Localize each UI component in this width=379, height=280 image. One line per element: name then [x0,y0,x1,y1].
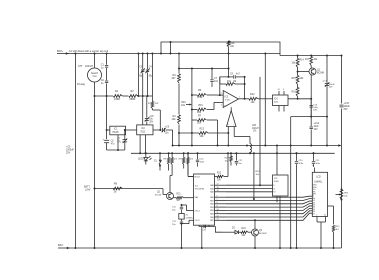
svg-text:4k7: 4k7 [172,77,177,80]
svg-text:RB4: RB4 [210,210,214,212]
resistor R26 on bus [225,152,233,165]
wire right rail [341,55,343,249]
capacitor C16 emitter [310,99,319,117]
svg-text:L1B: L1B [252,125,256,127]
svg-text:16: 16 [324,215,326,217]
svg-text:25V: 25V [66,153,71,155]
wire 5V rail [173,144,342,147]
capacitor C9 feedback [219,74,245,97]
svg-text:Search: Search [91,73,99,75]
svg-text:RB3: RB3 [210,207,214,209]
resistor R13 bottom line [179,128,228,139]
wire tank vertical b [151,53,153,97]
capacitor C7 47u [117,129,127,150]
node BAT- terminal [58,243,70,250]
svg-text:100n: 100n [316,163,322,165]
resistor R27 tank feed [148,96,161,131]
svg-text:BC548: BC548 [317,72,325,74]
svg-text:OSC2: OSC2 [195,220,200,222]
svg-text:BATT: BATT [84,186,90,189]
svg-text:+C15: +C15 [344,103,350,105]
diode D2 [222,228,239,235]
svg-text:RB5: RB5 [210,214,214,216]
IC1 regulator [110,126,126,135]
svg-text:3: 3 [221,104,222,106]
resistor R21 [174,194,194,203]
wire data bus RB0-RB7 [226,196,312,220]
svg-text:100mH: 100mH [85,65,93,68]
svg-text:1%: 1% [253,131,256,133]
capacitor C1 [101,53,109,81]
wire regulator feed [107,129,110,131]
resistor R19 [179,152,185,168]
capacitor LC1 [322,55,336,117]
svg-text:CL: CL [273,188,275,190]
svg-text:6: 6 [217,196,218,198]
svg-text:RB1: RB1 [210,200,214,202]
svg-text:OSC1: OSC1 [195,210,200,212]
resistor R28 from H0 [227,41,235,78]
svg-text:TL072: TL072 [225,99,232,101]
wire RA bus to IC6 [226,185,273,192]
svg-text:BAT-: BAT- [58,243,64,247]
svg-text:9: 9 [217,206,218,208]
wire aux vertical [253,152,255,200]
node BATT LOW line [84,186,163,192]
resistor R3 [172,53,181,96]
svg-text:11: 11 [217,212,219,214]
svg-text:12: 12 [217,215,219,217]
resistor R12 output [239,93,273,104]
resistor R5 upper input [192,89,223,99]
text C5 annotation [66,147,74,155]
wire PIC ground pins [199,225,222,249]
svg-text:13: 13 [217,219,219,221]
svg-text:100uF: 100uF [344,106,351,108]
capacitor C7 on tap [210,69,218,88]
capacitor C20 [295,152,304,249]
wire PIC left pin MCLR [188,176,194,178]
svg-text:4: 4 [283,89,284,91]
svg-text:ATT: ATT [78,65,83,68]
IC U6 shift register [273,145,289,250]
wire regulator out to 5V rail [172,130,174,147]
svg-text:18: 18 [217,187,219,189]
svg-text:BC548C: BC548C [259,233,267,235]
svg-text:RA0: RA0 [210,184,214,187]
capacitor C5 reservoir [103,96,115,150]
resistor R1 [95,90,123,101]
svg-text:BC558: BC558 [155,194,162,196]
svg-text:RB7: RB7 [210,220,214,222]
svg-text:10n: 10n [238,163,241,165]
svg-text:10: 10 [217,209,219,211]
svg-text:+C9: +C9 [165,126,170,128]
resistor R4 [172,95,181,147]
svg-text:VR1: VR1 [198,104,203,107]
wire bottom bus [67,247,342,249]
coil L1 search coil [77,53,102,98]
svg-text:17: 17 [217,184,219,186]
svg-text:14: 14 [278,89,280,91]
svg-text:249R: 249R [114,98,120,101]
transistor Q2 [155,176,174,200]
wire rail x260 [259,77,261,186]
resistor R11 feedback [220,76,246,100]
crystal X1 [172,204,194,249]
resistor R25 [332,225,340,249]
transistor Q3 [252,219,268,249]
svg-text:14 Volt Reed with a center tap: 14 Volt Reed with a center tap coil [69,49,108,53]
transistor Q1 [298,55,325,117]
svg-text:100n: 100n [299,163,305,165]
svg-text:LOW: LOW [85,190,91,192]
wire IC1 ground pin [107,135,125,151]
svg-text:7812: 7812 [140,131,146,133]
wire between regulators [126,129,137,131]
resistor R24 [239,228,252,237]
op-amp U1A [221,91,241,108]
svg-text:-: - [224,93,225,96]
wire tank vertical a [137,53,139,98]
svg-text:63V: 63V [313,109,317,111]
wire lcd contrast [328,206,334,225]
wire U1B inputs [227,127,240,147]
svg-text:25V: 25V [344,109,348,111]
svg-text:LCD: LCD [316,177,321,179]
svg-text:19: 19 [217,190,219,192]
svg-text:7: 7 [217,199,218,201]
inductor L1B [240,125,259,154]
svg-text:RA3: RA3 [195,196,199,199]
wire coil return rail [94,96,96,249]
capacitor C14 10u [310,117,320,146]
potentiometer VR2 contrast [336,189,349,201]
LED LED1 [138,152,152,164]
wire rail x265 [264,53,266,146]
op-amp U1B [227,107,237,126]
capacitor C8 above IC2 [145,96,155,125]
svg-text:R13: R13 [200,128,205,131]
resistor R7 lower [192,115,219,147]
resistor R23 pair label [256,171,261,176]
svg-text:18 awg: 18 awg [77,83,86,86]
svg-text:RB0: RB0 [210,197,214,199]
wire top supply bus [66,54,342,56]
wire emitter box [290,116,328,249]
wire left rail [74,53,76,249]
wire IC2 ground pins [139,135,146,155]
trimmer VR1 [181,68,193,147]
capacitor C10 [196,152,205,166]
svg-text:10uF: 10uF [314,126,320,128]
IC U4 comparator [273,89,313,112]
resistor R20 [187,152,194,175]
capacitor C3 trimmer [139,53,145,98]
svg-text:BAT+: BAT+ [57,49,64,53]
switch S1 [154,152,162,170]
svg-text:1: 1 [316,215,317,217]
resistor R8 [113,183,122,194]
capacitor C9 output [153,126,173,134]
capacitor C4 trimmer [145,53,153,98]
svg-text:10n: 10n [214,80,219,83]
svg-text:RB6: RB6 [210,217,214,219]
svg-text:470k: 470k [197,96,203,99]
svg-text:16V: 16V [329,86,333,88]
resistor R16 [292,88,300,99]
capacitor C15 on right rail [340,103,351,111]
resistor R22 MCLR [215,152,230,181]
svg-text:D7: D7 [313,213,315,215]
svg-text:+LC1: +LC1 [322,80,328,82]
capacitor C2 [101,79,109,97]
wire MCLR pullup [187,152,194,176]
svg-text:2: 2 [221,93,222,95]
svg-text:Coil: Coil [93,76,97,78]
svg-text:RB2: RB2 [210,204,214,206]
IC2 regulator [137,125,153,135]
svg-text:+C5: +C5 [66,147,71,149]
resistor R2 [123,90,153,101]
wire status bus [131,152,335,154]
svg-text:RA2: RA2 [210,191,214,194]
svg-text:25V: 25V [149,121,153,123]
svg-text:100uH: 100uH [252,128,259,130]
svg-text:16V: 16V [314,129,318,131]
svg-text:78L05: 78L05 [112,132,119,134]
node BAT+ terminal [57,49,108,55]
resistor R6 [192,102,223,114]
resistor R9 [164,152,170,170]
svg-text:1000uF: 1000uF [66,150,74,152]
svg-text:MCLR: MCLR [195,176,201,178]
svg-text:R12: R12 [250,93,255,96]
resistor R14 [292,55,305,72]
svg-text:1: 1 [239,97,240,99]
resistor R15 [292,71,305,88]
capacitor C22 on bus [235,152,243,165]
svg-text:100n: 100n [200,161,206,163]
svg-text:8: 8 [217,202,218,204]
svg-text:680R: 680R [130,98,136,101]
svg-text:LM041L: LM041L [314,182,323,184]
svg-text:+C14: +C14 [314,123,320,125]
wire mid horizontal [178,68,229,70]
resistor R10 [171,152,178,175]
svg-text:LED1: LED1 [138,159,144,161]
wire upper bus H0 [160,41,280,55]
svg-text:PIC16F84: PIC16F84 [195,189,205,191]
svg-text:10R: 10R [155,103,159,105]
IC U5 PIC16F84 microcontroller [194,174,227,225]
svg-text:RA1: RA1 [210,187,214,190]
capacitor C21 [312,152,321,167]
LCD module LM041L [312,165,328,249]
wire vertical tap on H0 [170,42,172,55]
wire x142 down [142,96,144,125]
svg-text:1M: 1M [233,81,236,83]
svg-text:4.0MHz: 4.0MHz [186,217,193,219]
